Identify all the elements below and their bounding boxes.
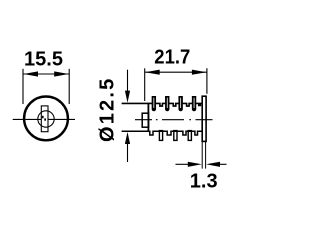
top wafer tab 3 <box>178 96 182 111</box>
svg-text:Ø12.5: Ø12.5 <box>96 77 118 142</box>
svg-text:21.7: 21.7 <box>154 46 190 68</box>
top wafer tab 2 <box>165 96 169 111</box>
svg-text:1.3: 1.3 <box>190 170 218 192</box>
dim 1.3 right extension line <box>205 142 207 169</box>
dim 21.7 right arrowhead <box>192 70 207 75</box>
side view bottom tab 2 <box>174 131 177 141</box>
dim 15.5 right extension line <box>68 69 70 104</box>
inner circle (plug) <box>38 111 54 127</box>
side view body left edge <box>147 103 149 132</box>
dim 21.7 right extension line <box>206 68 208 94</box>
top wafer tab 4 <box>192 96 196 111</box>
dim O12.5 lower arrowhead (up) <box>125 132 130 144</box>
cam (left protrusion) <box>142 113 148 127</box>
dim 21.7 dimension line <box>145 71 207 73</box>
side view bottom tab 3 <box>188 131 191 141</box>
side view bottom edge with notches (incl. O12.5 extension) <box>122 131 202 135</box>
dim O12.5 upper arrow line <box>127 70 129 94</box>
outer circle (cylinder face) <box>24 97 68 141</box>
dim O12.5 upper arrowhead (down) <box>125 91 130 103</box>
svg-text:15.5: 15.5 <box>24 48 63 70</box>
dim 1.3 left extension line <box>201 142 203 169</box>
dim 21.7 left extension line <box>144 68 146 101</box>
side view centerline (dash-dot) <box>135 119 213 121</box>
side view bottom tab 1 <box>159 131 162 141</box>
dim 15.5 dimension line <box>23 73 69 75</box>
dim 15.5 left extension line <box>22 69 24 104</box>
front view centerline <box>13 118 75 120</box>
keyway right ward <box>44 118 46 120</box>
dim 1.3 right arrow <box>206 162 227 167</box>
side view top edge with notches (incl. O12.5 extension) <box>122 103 202 106</box>
dim 1.3 left arrow <box>176 162 202 167</box>
dim O12.5 lower arrow line <box>127 141 129 162</box>
top wafer tab 1 <box>152 96 156 111</box>
dim 21.7 left arrowhead <box>145 70 160 75</box>
dim 15.5 right arrowhead <box>54 71 69 76</box>
keyway left ward <box>42 116 44 119</box>
front flange (1.3 mm plate) <box>202 96 206 141</box>
keyway slot <box>41 106 48 132</box>
dim 15.5 left arrowhead <box>23 71 38 76</box>
